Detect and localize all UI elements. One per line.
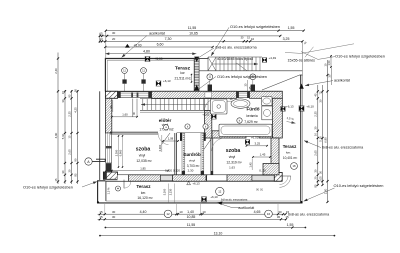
window W1 jamb left xyxy=(118,92,121,98)
svg-text:5,200: 5,200 xyxy=(162,188,166,195)
svg-text:21,511 m²: 21,511 m² xyxy=(174,77,190,81)
corner pillar NW xyxy=(105,91,117,98)
terrace parapet band right xyxy=(194,59,199,92)
svg-text:5,10: 5,10 xyxy=(61,133,65,139)
lower stair walk line xyxy=(141,104,208,106)
upper terrace outline xyxy=(105,59,194,92)
svg-text:0,120: 0,120 xyxy=(173,168,180,172)
svg-text:10: 10 xyxy=(179,210,183,214)
svg-text:30: 30 xyxy=(112,31,116,35)
svg-text:10,65: 10,65 xyxy=(189,31,198,35)
svg-text:Terasz: Terasz xyxy=(136,184,151,189)
svg-text:2,35: 2,35 xyxy=(67,111,71,117)
roof column bubble left xyxy=(207,74,213,80)
parapet arrow top xyxy=(194,57,199,62)
upper stair cross brace xyxy=(208,57,216,71)
svg-text:0,900: 0,900 xyxy=(158,144,162,151)
parapet arrow bottom xyxy=(194,85,199,91)
svg-text:40-5O/18/65 fokos lépcső: 40-5O/18/65 fokos lépcső xyxy=(217,57,254,61)
dim left col2 xyxy=(64,90,66,184)
szoba2 dim 3,25 xyxy=(247,145,268,147)
svg-text:13,10: 13,10 xyxy=(214,231,223,235)
right terrace bubble xyxy=(291,163,298,170)
eloter dim 1,60 xyxy=(112,116,137,118)
szoba1 dim 1,85 xyxy=(112,170,168,172)
dim bottom row3 xyxy=(105,227,306,229)
svg-text:+6,13: +6,13 xyxy=(163,79,171,83)
svg-text:4,65: 4,65 xyxy=(254,210,261,214)
wall west upper xyxy=(105,98,111,133)
svg-text:1,55: 1,55 xyxy=(287,223,294,227)
dim top row5 4,80 xyxy=(105,53,196,55)
svg-text:O10-es lefolyó szigetelésben: O10-es lefolyó szigetelésben xyxy=(23,184,73,189)
dim top row1 11,55 1,55 xyxy=(106,30,304,32)
west window mullion xyxy=(106,146,112,148)
bathroom dim 30 xyxy=(225,100,236,102)
roof column left xyxy=(208,85,212,92)
terrace rotated dims 5,200 2,230 xyxy=(167,184,169,203)
svg-text:acélkorlát: acélkorlát xyxy=(334,79,350,83)
dim left col1 xyxy=(57,53,59,185)
terrace elevation +6,13 xyxy=(187,181,191,184)
eave line west xyxy=(99,91,101,180)
svg-text:6x8-as alu. ereszcsatorna: 6x8-as alu. ereszcsatorna xyxy=(221,198,248,201)
stair top elevation +4,49 xyxy=(262,58,267,63)
dim top row4 6,60 xyxy=(105,46,212,48)
svg-text:szoba: szoba xyxy=(136,146,151,152)
svg-text:10: 10 xyxy=(251,37,255,41)
terrace elevation marker +6,13 xyxy=(156,81,161,86)
svg-text:1,08: 1,08 xyxy=(168,137,174,141)
dim top row3 7,30 3,25 xyxy=(100,40,303,42)
column right xyxy=(141,79,145,83)
window W2 jambs xyxy=(237,92,239,98)
eloter elevation +6,01 xyxy=(211,114,216,119)
svg-text:acélkorlát: acélkorlát xyxy=(238,206,254,210)
dim bottom row1 xyxy=(98,213,286,215)
parapet arrow marker xyxy=(299,84,304,89)
svg-text:szoba: szoba xyxy=(226,148,241,154)
dim extension verticals top xyxy=(105,31,107,59)
wall north border xyxy=(105,90,282,92)
corner pillar SW xyxy=(103,172,117,179)
stair start mark xyxy=(136,99,138,111)
bathroom bubble xyxy=(237,118,242,123)
svg-text:11: 11 xyxy=(123,68,126,72)
wall south border outer xyxy=(105,180,281,182)
svg-text:10,85: 10,85 xyxy=(187,215,196,219)
svg-text:15: 15 xyxy=(99,31,103,35)
gardrob wall feet xyxy=(182,171,185,175)
shower tray xyxy=(211,99,228,114)
eloter dim 40 rotated xyxy=(112,100,114,112)
svg-text:+5,00: +5,00 xyxy=(154,57,162,61)
roof column right xyxy=(251,85,255,92)
svg-text:kerámia: kerámia xyxy=(246,114,258,118)
junction slot at east wall xyxy=(273,92,277,98)
SW door leaf xyxy=(123,180,125,189)
svg-text:4,80: 4,80 xyxy=(143,49,150,53)
szoba2 door swing xyxy=(204,138,212,150)
window S2 south wall xyxy=(252,175,279,180)
svg-text:4,40: 4,40 xyxy=(140,210,147,214)
svg-text:2,35: 2,35 xyxy=(314,111,318,117)
szoba2 dim 1,45 rotated xyxy=(251,159,253,171)
svg-text:6x8-es alu. ereszcsatorna: 6x8-es alu. ereszcsatorna xyxy=(322,146,363,150)
elevation +5,00 filled xyxy=(125,44,130,48)
wall north hatch mid xyxy=(152,91,237,98)
svg-text:O10-es lefolyó szigetelésben: O10-es lefolyó szigetelésben xyxy=(334,183,384,188)
eloter bubbles xyxy=(185,124,190,129)
svg-text:3,703 m²: 3,703 m² xyxy=(187,164,200,168)
svg-text:2,65: 2,65 xyxy=(314,150,318,156)
svg-text:ker.: ker. xyxy=(141,191,146,195)
dim right col2 xyxy=(322,85,324,186)
svg-text:30: 30 xyxy=(112,215,116,219)
svg-text:12: 12 xyxy=(218,190,222,194)
svg-text:2,30: 2,30 xyxy=(188,169,194,173)
svg-text:11,55: 11,55 xyxy=(188,26,197,30)
column bubble T1 left xyxy=(122,68,128,74)
svg-text:2,05: 2,05 xyxy=(318,176,322,182)
svg-text:20: 20 xyxy=(112,37,116,41)
svg-text:1,55: 1,55 xyxy=(288,26,295,30)
svg-text:7,629 m²: 7,629 m² xyxy=(244,120,258,124)
svg-text:6,90: 6,90 xyxy=(323,137,327,143)
svg-text:Gardrób: Gardrób xyxy=(183,152,201,157)
svg-text:2,390: 2,390 xyxy=(115,149,119,156)
svg-text:3,25: 3,25 xyxy=(283,37,290,41)
svg-text:acélkorlát: acélkorlát xyxy=(149,32,165,36)
svg-text:12,035 m²: 12,035 m² xyxy=(136,159,152,163)
svg-text:1,40: 1,40 xyxy=(187,210,194,214)
svg-text:1,85: 1,85 xyxy=(140,166,146,170)
stair side wall lines xyxy=(132,99,134,117)
wall south hatch 3 xyxy=(227,175,252,181)
window S1 south wall xyxy=(161,175,173,180)
svg-text:+6,01: +6,01 xyxy=(202,113,210,117)
szoba2 SE corner block xyxy=(263,164,279,175)
svg-text:6x8-es alu. ereszcsatorna: 6x8-es alu. ereszcsatorna xyxy=(215,46,256,50)
wall east of szoba2 xyxy=(271,138,279,173)
gardrob east dotted wall xyxy=(201,133,204,175)
svg-text:+6,10: +6,10 xyxy=(306,105,314,109)
wall south border inner xyxy=(105,174,281,176)
svg-text:0, 20: 0, 20 xyxy=(259,169,266,173)
svg-text:5,10: 5,10 xyxy=(318,136,322,142)
svg-text:12: 12 xyxy=(166,212,170,216)
svg-text:+5,00: +5,00 xyxy=(133,43,141,47)
wall interior eloter-bathroom xyxy=(205,111,212,139)
wall north hatch east xyxy=(250,91,283,98)
partition szoba1 north xyxy=(110,131,158,133)
column left xyxy=(122,79,126,83)
svg-text:+6,10: +6,10 xyxy=(210,195,218,199)
svg-text:1,50: 1,50 xyxy=(327,60,331,66)
svg-text:O10-es lefolyó szigetelésben: O10-es lefolyó szigetelésben xyxy=(217,74,267,79)
dim bottom row4 xyxy=(99,235,335,237)
svg-text:10,401 m²: 10,401 m² xyxy=(283,156,297,160)
window W1 north wall xyxy=(118,92,152,98)
svg-text:Fürdő: Fürdő xyxy=(246,107,259,112)
svg-text:1,45: 1,45 xyxy=(248,162,252,168)
dim right col3 xyxy=(327,60,329,203)
svg-text:15: 15 xyxy=(285,215,289,219)
szoba2 west partition xyxy=(210,138,212,175)
svg-text:2,230: 2,230 xyxy=(169,188,173,195)
svg-text:11,55: 11,55 xyxy=(187,223,196,227)
gardrob top lintel xyxy=(177,132,206,134)
section marker A xyxy=(85,158,92,165)
wall south hatch 1 xyxy=(129,175,161,181)
long leader top right xyxy=(285,44,354,54)
washbasin xyxy=(231,99,250,108)
west wall dark pier xyxy=(106,163,112,171)
terrace top edge extension xyxy=(196,58,208,60)
svg-text:6,60: 6,60 xyxy=(157,43,164,47)
door opening S to terrace xyxy=(207,175,227,180)
bathtub xyxy=(219,124,272,136)
szoba1 dim 1,08 xyxy=(163,140,178,142)
svg-text:Terasz: Terasz xyxy=(283,144,297,149)
upper stair flight xyxy=(208,56,262,58)
roof column bubble right xyxy=(250,74,256,80)
svg-text:ker.: ker. xyxy=(286,150,291,154)
dim left col4 xyxy=(77,90,79,184)
dim right col1 xyxy=(317,85,319,186)
bottom terrace bubble xyxy=(116,186,121,191)
bottom extension stubs xyxy=(104,204,106,214)
south opening bubble xyxy=(216,187,224,195)
svg-text:16,120 m²: 16,120 m² xyxy=(137,196,153,200)
stair bottom double line xyxy=(140,111,212,113)
wall south of bathroom east xyxy=(259,131,272,138)
bathroom door leaf xyxy=(204,99,206,111)
roof edge diagonal xyxy=(262,75,300,90)
svg-text:30: 30 xyxy=(278,210,282,214)
svg-text:30: 30 xyxy=(112,210,116,214)
svg-text:1,63: 1,63 xyxy=(229,165,235,169)
roof edge kink xyxy=(237,63,248,71)
svg-text:6,90: 6,90 xyxy=(54,132,58,138)
svg-text:+4,49: +4,49 xyxy=(269,56,277,60)
wall east of bathroom xyxy=(272,98,282,138)
szoba2 elevation +6,01 xyxy=(245,140,250,145)
svg-text:18: 18 xyxy=(293,164,296,168)
szoba2 dim 1,45 xyxy=(253,156,270,158)
column bubble T1 right xyxy=(141,68,147,74)
svg-text:4,25: 4,25 xyxy=(73,107,77,113)
right terrace door swing xyxy=(280,175,291,177)
door opening SW to terrace xyxy=(118,175,129,181)
dim bottom row2 xyxy=(98,218,286,220)
svg-text:11: 11 xyxy=(142,68,145,72)
svg-text:O10-es lefolyó szigetelésben: O10-es lefolyó szigetelésben xyxy=(335,54,385,59)
south opening jambs xyxy=(206,175,207,180)
dim 1,50 rotated xyxy=(330,55,332,68)
window W1 mullion xyxy=(131,93,133,98)
junction slot at interior wall xyxy=(205,92,212,98)
svg-text:2,40: 2,40 xyxy=(54,68,58,74)
window W1 jamb right xyxy=(148,92,151,98)
wall west lower xyxy=(105,171,111,175)
bottom terrace outline xyxy=(98,181,303,203)
lower stair treads xyxy=(140,98,212,100)
svg-text:1,60: 1,60 xyxy=(122,113,128,117)
partition szoba1-gardrob xyxy=(174,133,176,175)
svg-text:15x55-ös áttörés: 15x55-ös áttörés xyxy=(288,58,316,62)
svg-text:vinyl: vinyl xyxy=(139,153,146,157)
terrace elevation +6,10 xyxy=(201,197,206,202)
upper stair walk line xyxy=(212,63,258,65)
svg-text:7,30: 7,30 xyxy=(165,37,172,41)
svg-text:15: 15 xyxy=(99,210,103,214)
szoba1 door leaf xyxy=(162,133,171,145)
svg-text:vinyl: vinyl xyxy=(189,159,196,163)
svg-text:3,25: 3,25 xyxy=(254,142,260,146)
svg-text:16: 16 xyxy=(267,212,271,216)
window W2 north wall xyxy=(237,92,250,98)
dim 30 45 rotated mid xyxy=(247,80,249,91)
wall south hatch 2 xyxy=(173,175,208,181)
corner pillar SE xyxy=(274,173,282,182)
wall south of bathroom west xyxy=(212,131,246,138)
svg-text:1,45: 1,45 xyxy=(260,153,266,157)
gardrob door posts xyxy=(180,132,182,141)
dim left col3 xyxy=(71,90,73,184)
svg-text:1,5 %: 1,5 % xyxy=(107,187,111,194)
svg-text:+6,13: +6,13 xyxy=(286,105,294,109)
svg-text:10: 10 xyxy=(202,210,206,214)
svg-text:15: 15 xyxy=(99,215,103,219)
washing machine xyxy=(262,106,272,120)
right parapet outer wall xyxy=(300,75,302,203)
szoba1 door dim 0,900 rotated xyxy=(161,135,163,152)
svg-text:+6,13: +6,13 xyxy=(192,181,200,185)
terrace corner dots xyxy=(97,201,99,203)
dim top row2 10,65 xyxy=(100,35,280,37)
window W3 west wall xyxy=(106,133,112,163)
svg-text:12,319 m²: 12,319 m² xyxy=(226,161,242,165)
wc xyxy=(262,97,273,106)
gardrob west dotted wall xyxy=(182,133,185,175)
svg-text:13: 13 xyxy=(99,37,103,41)
svg-text:vinyl: vinyl xyxy=(229,155,236,159)
svg-text:0,120: 0,120 xyxy=(165,168,172,172)
svg-text:0,900: 0,900 xyxy=(119,149,123,156)
svg-text:O10-es lefolyó szigetelésben: O10-es lefolyó szigetelésben xyxy=(230,24,280,29)
svg-text:30: 30 xyxy=(277,215,281,219)
west window dim lines xyxy=(118,135,120,168)
svg-text:2,65: 2,65 xyxy=(67,149,71,155)
svg-text:6x8-as alu. ereszcsatorna: 6x8-as alu. ereszcsatorna xyxy=(288,212,329,216)
terrace inner dim 1,5 xyxy=(191,74,193,83)
